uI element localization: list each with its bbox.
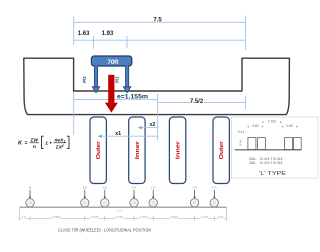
svg-text:17t: 17t [192, 186, 196, 190]
axle spacing labels [22, 215, 224, 219]
inset notes [249, 157, 283, 165]
wheel 1 [26, 199, 34, 207]
svg-text:Outer: Outer [96, 140, 102, 159]
wheel 5 [149, 199, 157, 207]
wheel 7 [210, 199, 218, 207]
svg-text:2.130: 2.130 [116, 215, 124, 219]
svg-text:Inner: Inner [135, 140, 141, 159]
wheel 2 [81, 199, 89, 207]
wheel 6 [190, 199, 198, 207]
svg-text:17t: 17t [212, 186, 216, 190]
svg-text:=: = [25, 140, 28, 146]
svg-text:1.370: 1.370 [201, 215, 209, 219]
svg-text:5.41: 5.41 [238, 130, 245, 134]
svg-text:1.520: 1.520 [91, 215, 99, 219]
girder 3 (inner) [169, 117, 185, 184]
inset baseline [235, 149, 302, 151]
svg-text:x1: x1 [115, 131, 121, 137]
svg-text:0.91: 0.91 [218, 215, 224, 219]
wheel 4 [130, 199, 138, 207]
eccentricity dimension [74, 92, 246, 141]
svg-text:2.130: 2.130 [116, 208, 123, 212]
vehicle ground line [20, 206, 227, 208]
girder 1 (outer) [90, 117, 106, 184]
svg-text:7.5/2: 7.5/2 [190, 99, 204, 105]
svg-text:12t: 12t [83, 186, 87, 190]
svg-text:x2: x2 [149, 122, 155, 128]
inset kerb block D [294, 138, 302, 150]
svg-text:17t: 17t [151, 186, 155, 190]
svg-text:0.6: 0.6 [22, 215, 26, 219]
svg-text:3.790: 3.790 [268, 119, 276, 123]
svg-text:1 +: 1 + [45, 141, 52, 147]
svg-text:0.60: 0.60 [286, 124, 293, 128]
svg-text:Inner: Inner [176, 140, 182, 159]
svg-text:17t: 17t [132, 186, 136, 190]
70R load box [91, 56, 131, 66]
x2 dimension [138, 122, 158, 129]
top dimension lines [74, 16, 246, 51]
svg-text:8t: 8t [29, 186, 32, 190]
svg-text:12t: 12t [103, 186, 107, 190]
wheel load leg left [92, 65, 100, 92]
svg-text:0.41: 0.41 [238, 139, 242, 145]
svg-text:P/2: P/2 [114, 76, 119, 83]
svg-text:e=1.155m: e=1.155m [117, 94, 148, 100]
x1 dimension [98, 131, 158, 138]
svg-text:P/2: P/2 [82, 76, 87, 83]
resultant red arrow [105, 75, 118, 113]
svg-text:Outer: Outer [219, 140, 225, 159]
inset kerb block A [248, 138, 256, 150]
wheel 3 [101, 199, 109, 207]
svg-text:7.5: 7.5 [153, 18, 162, 24]
svg-text:n: n [33, 145, 36, 150]
girder 2 (inner) [129, 117, 145, 184]
svg-text:CLASS 70R (WHEELED) - LONGITUD: CLASS 70R (WHEELED) - LONGITUDINAL POSIT… [58, 228, 151, 233]
svg-text:3.960: 3.960 [52, 215, 60, 219]
L-type inset frame [232, 117, 319, 178]
svg-text:0.60: 0.60 [252, 124, 259, 128]
axle group [26, 186, 219, 207]
inset kerb block B [257, 138, 265, 150]
girder 4 (outer) [213, 117, 229, 184]
svg-text:1.63: 1.63 [78, 31, 90, 37]
svg-text:1.93: 1.93 [102, 31, 114, 37]
svg-text:3.050: 3.050 [170, 215, 178, 219]
svg-text:1.370: 1.370 [140, 215, 148, 219]
distribution factor formula [18, 136, 69, 150]
inset kerb block C [285, 138, 293, 150]
svg-text:3A. 0.41+3.61: 3A. 0.41+3.61 [249, 161, 283, 165]
deck cross-section outline [24, 58, 290, 114]
axle spacing dimension line [20, 208, 227, 221]
wheel load leg right [123, 65, 131, 92]
svg-text:70R: 70R [107, 60, 119, 66]
svg-text:'L' TYPE: 'L' TYPE [259, 171, 286, 177]
